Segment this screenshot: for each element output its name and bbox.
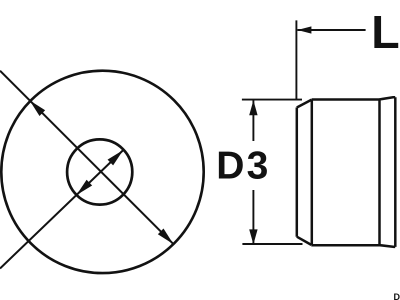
side view: chamfer/body vertical edge [311,100,314,245]
side view: bottom-left chamfer [297,237,312,245]
svg-text:D3: D3 [216,145,270,188]
arrowhead D3 top (points up) [249,100,257,115]
arrowhead outer diameter, upper-left tip on outer circle [27,98,45,116]
side view: bottom edge of body with right taper [311,245,395,247]
side view: top-left chamfer [297,100,312,108]
D3 top extension line [242,99,302,101]
L dimension line (horizontal) [297,29,365,31]
outer diameter dimension line (diagonal, top-left to bottom-right) [0,71,173,244]
outer circle (front view, outer diameter) [1,71,203,273]
svg-text:L: L [371,6,399,58]
side view: top edge of body with right taper [312,97,396,99]
arrowhead L (points left) [297,26,311,33]
svg-text:D: D [394,292,400,300]
arrowhead inner diameter, lower-left tip on inner circle [74,180,93,198]
arrowhead inner diameter, upper-right tip on inner circle [108,147,127,165]
inner diameter dimension line (diagonal, bottom-left to upper-right) [0,150,123,269]
side view: mid vertical edge (body/collar) [378,100,381,246]
arrowhead D3 bottom (points down) [249,229,257,244]
arrowhead outer diameter, lower-right tip on outer circle [158,229,176,247]
D3 bottom extension line [242,243,302,245]
inner circle (bore) [67,139,132,204]
side view: left face vertical edge [296,108,299,237]
D3 dimension line upper segment [252,101,254,142]
side view: right end vertical edge [394,97,397,247]
D3 dimension line lower segment [252,190,254,244]
L extension line (vertical, left end of part) [295,20,297,99]
